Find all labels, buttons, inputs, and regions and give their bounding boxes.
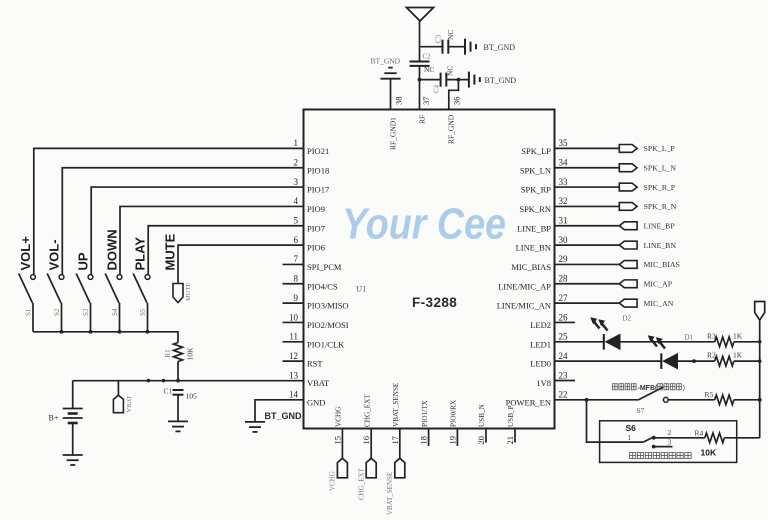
annotation box for S6 circuit xyxy=(600,421,737,463)
annotation slide switch power on xyxy=(630,453,636,459)
svg-text:VBAT: VBAT xyxy=(307,378,330,388)
pin 36 wire jog xyxy=(449,80,459,110)
pin 23 1V8 stub xyxy=(555,379,576,381)
svg-text:10K: 10K xyxy=(186,347,195,361)
wire POWER_EN down to S6 box xyxy=(587,400,644,442)
svg-text:13: 13 xyxy=(289,370,299,380)
svg-text:MIC_BIAS: MIC_BIAS xyxy=(644,260,680,269)
svg-text:14: 14 xyxy=(289,390,299,400)
capacitor C4 NC xyxy=(440,73,442,87)
svg-text:MIC_BIAS: MIC_BIAS xyxy=(511,262,551,272)
switch S3 UP xyxy=(88,275,93,280)
pin 8 PIO4/CS stub + number xyxy=(283,283,304,285)
svg-text:VBAT_SENSE: VBAT_SENSE xyxy=(386,472,394,515)
pin 12 RST stub + number xyxy=(283,360,304,362)
svg-text:23: 23 xyxy=(559,370,569,380)
svg-text:BT_GND: BT_GND xyxy=(484,43,516,52)
svg-text:22: 22 xyxy=(559,390,568,400)
battery B+ xyxy=(72,381,74,409)
svg-text:B+: B+ xyxy=(49,414,59,423)
pin 20 USB_N xyxy=(485,429,487,443)
svg-text:SPK_LN: SPK_LN xyxy=(520,165,551,175)
pin 18 PIO1/TX xyxy=(428,429,430,447)
svg-text:RF_GND1: RF_GND1 xyxy=(389,117,398,150)
svg-text:PIO9: PIO9 xyxy=(307,204,325,214)
pin 4 wire to S4 xyxy=(120,206,304,274)
svg-text:LINE_BN: LINE_BN xyxy=(516,243,551,253)
svg-text:4: 4 xyxy=(294,196,299,206)
svg-text:PIO21: PIO21 xyxy=(307,146,329,156)
svg-text:VBAT_SENSE: VBAT_SENSE xyxy=(392,382,400,427)
port flag CHG_EXT xyxy=(366,458,376,478)
svg-text:6: 6 xyxy=(294,235,299,245)
svg-text:CHG_EXT: CHG_EXT xyxy=(358,467,366,500)
svg-text:MUTE: MUTE xyxy=(185,283,192,301)
svg-text:NC: NC xyxy=(446,30,455,40)
pin 26 LED2 stub xyxy=(555,321,576,323)
VBAT flag connector xyxy=(117,381,119,396)
pin 2 wire to S2 xyxy=(62,168,303,275)
svg-text:S7: S7 xyxy=(637,406,645,415)
svg-text:USB_P: USB_P xyxy=(507,405,515,427)
pin 17 VBAT_SENSE xyxy=(399,429,401,459)
pin 10 PIO2/MOSI stub + number xyxy=(283,321,304,323)
svg-text:PIO1/TX: PIO1/TX xyxy=(421,399,429,427)
svg-text:BT_GND: BT_GND xyxy=(485,76,517,85)
svg-text:37: 37 xyxy=(421,97,431,106)
svg-text:SPK_R_P: SPK_R_P xyxy=(644,183,676,192)
svg-text:DOWN: DOWN xyxy=(104,229,119,270)
svg-text:PIO2/MOSI: PIO2/MOSI xyxy=(307,320,349,330)
svg-text:VOL+: VOL+ xyxy=(18,236,33,271)
svg-text:PIO6: PIO6 xyxy=(307,243,325,253)
svg-text:NC: NC xyxy=(424,65,434,74)
svg-text:-MFB(: -MFB( xyxy=(638,385,658,392)
svg-text:9: 9 xyxy=(294,293,299,303)
svg-text:R3: R3 xyxy=(707,331,716,340)
switch S6 xyxy=(643,436,655,442)
port flag SPK_L_N xyxy=(619,164,637,172)
svg-text:8: 8 xyxy=(294,274,299,284)
port flag VBAT_SENSE xyxy=(395,458,405,478)
wire pin 28 to port xyxy=(555,283,620,285)
svg-text:VOL-: VOL- xyxy=(46,239,61,270)
port flag SPK_R_P xyxy=(619,183,637,191)
svg-text:1K: 1K xyxy=(733,351,743,360)
svg-text:PIO17: PIO17 xyxy=(307,185,329,195)
svg-text:SPI_PCM: SPI_PCM xyxy=(307,262,342,272)
port flag MIC_AP xyxy=(619,280,637,288)
svg-text:UP: UP xyxy=(75,252,90,270)
svg-text:LINE/MIC_AP: LINE/MIC_AP xyxy=(498,281,551,291)
switch S1 VOL+ xyxy=(31,275,36,280)
svg-text:S6: S6 xyxy=(626,423,637,433)
svg-text:1V8: 1V8 xyxy=(536,378,551,388)
svg-text:U1: U1 xyxy=(356,284,366,294)
svg-text:R1: R1 xyxy=(164,349,172,358)
R1 bottom wire xyxy=(177,362,179,381)
ground below C1 xyxy=(168,420,188,422)
VBAT node junction dots xyxy=(147,379,151,383)
pin 11 PIO1/CLK stub + number xyxy=(283,341,304,343)
LED D1 on LED0 line xyxy=(555,360,662,362)
svg-text:20: 20 xyxy=(476,436,486,445)
svg-text:D1: D1 xyxy=(685,334,694,342)
switch S7 xyxy=(638,387,663,400)
svg-text:BT_GND: BT_GND xyxy=(371,57,401,66)
svg-text:GND: GND xyxy=(307,397,325,407)
svg-text:SPK_L_P: SPK_L_P xyxy=(644,144,676,153)
svg-text:S2: S2 xyxy=(53,308,61,316)
junction after C4 xyxy=(457,78,461,82)
svg-text:34: 34 xyxy=(559,158,569,168)
svg-text:PIO3/MISO: PIO3/MISO xyxy=(307,301,349,311)
svg-text:S5: S5 xyxy=(139,308,147,316)
wire pin 29 to port xyxy=(555,263,620,265)
pin 1 wire to S1 xyxy=(34,148,304,274)
svg-text:RST: RST xyxy=(307,359,323,369)
svg-text:PLAY: PLAY xyxy=(132,237,147,271)
svg-text:MUTE: MUTE xyxy=(163,233,178,270)
wire pin 30 to port xyxy=(555,244,620,246)
svg-text:C3: C3 xyxy=(435,34,443,43)
svg-text:R2: R2 xyxy=(707,351,716,360)
rail junctions xyxy=(758,340,762,344)
svg-text:R4: R4 xyxy=(695,429,704,438)
pin 3 wire to S3 xyxy=(91,187,303,275)
svg-text:19: 19 xyxy=(447,436,457,445)
junction xyxy=(118,330,122,334)
D2 emission arrows xyxy=(593,321,599,329)
pin 9 PIO3/MISO stub + number xyxy=(283,302,304,304)
switch S5 PLAY xyxy=(145,275,150,280)
svg-text:R5: R5 xyxy=(705,390,714,399)
port flag MIC_AN xyxy=(619,299,637,307)
svg-text:C1: C1 xyxy=(164,387,173,396)
pin 21 USB_P xyxy=(514,429,516,443)
svg-text:LINE_BN: LINE_BN xyxy=(644,241,677,250)
junction xyxy=(60,330,64,334)
svg-text:LED1: LED1 xyxy=(530,339,551,349)
switch S4 DOWN xyxy=(117,275,122,280)
svg-text:12: 12 xyxy=(289,351,298,361)
svg-text:11: 11 xyxy=(289,332,298,342)
svg-text:LED2: LED2 xyxy=(530,320,551,330)
port flag MIC_BIAS xyxy=(619,261,637,269)
svg-text:10: 10 xyxy=(289,312,299,322)
S6 throw 3 stub xyxy=(652,445,656,449)
svg-text:PIO0/RX: PIO0/RX xyxy=(450,399,458,427)
svg-text:17: 17 xyxy=(390,436,400,445)
pin 19 PIO0/RX xyxy=(456,429,458,447)
power port BT_GND lower xyxy=(468,72,470,88)
ground BT_GND at pin 14 xyxy=(245,421,265,423)
svg-text:CHG_EXT: CHG_EXT xyxy=(363,394,371,427)
pin 5 wire to S5 xyxy=(148,226,303,275)
svg-text:30: 30 xyxy=(559,235,569,245)
svg-text:F-3288: F-3288 xyxy=(412,295,457,310)
svg-text:35: 35 xyxy=(559,138,569,148)
resistor R3 1K xyxy=(715,337,734,347)
svg-text:LINE/MIC_AN: LINE/MIC_AN xyxy=(497,301,551,311)
wire pin 27 to port xyxy=(555,302,620,304)
svg-text:28: 28 xyxy=(559,274,569,284)
port flag SPK_L_P xyxy=(619,145,637,153)
svg-text:PIO4/CS: PIO4/CS xyxy=(307,281,338,291)
wire pin 33 to port xyxy=(555,186,620,188)
wire S7 to R5 xyxy=(668,399,715,401)
svg-text:MIC_AN: MIC_AN xyxy=(644,299,674,308)
svg-text:VCHG: VCHG xyxy=(335,407,343,427)
right rail flag connector xyxy=(755,302,765,321)
svg-text:LINE_BP: LINE_BP xyxy=(644,222,676,231)
port flag SPK_R_N xyxy=(619,203,637,211)
svg-text:1: 1 xyxy=(294,138,299,148)
svg-text:BT_GND: BT_GND xyxy=(265,411,303,421)
branch wire to C4 xyxy=(420,79,441,81)
LED D2 on LED1 line xyxy=(555,341,604,343)
junction on POWER_EN xyxy=(585,398,589,402)
svg-text:SPK_R_N: SPK_R_N xyxy=(644,202,677,211)
svg-text:1K: 1K xyxy=(733,331,743,340)
junction on antenna line xyxy=(418,78,422,82)
svg-text:): ) xyxy=(683,385,685,392)
svg-text:36: 36 xyxy=(452,97,462,106)
svg-text:5: 5 xyxy=(294,216,299,226)
pin 13 VBAT wire xyxy=(73,380,304,382)
wire pin 31 to port xyxy=(555,225,620,227)
junction on LED0 line xyxy=(692,359,696,363)
pin 6 wire to MUTE flag xyxy=(178,245,304,283)
svg-text:SPK_LP: SPK_LP xyxy=(521,146,551,156)
svg-text:27: 27 xyxy=(559,293,569,303)
svg-text:2: 2 xyxy=(294,158,299,168)
port flag VCHG xyxy=(337,458,347,478)
capacitor C3 NC xyxy=(442,40,444,54)
resistor R1 xyxy=(174,343,183,362)
svg-text:Your Cee: Your Cee xyxy=(342,200,506,249)
junction xyxy=(146,330,150,334)
svg-text:26: 26 xyxy=(559,312,569,322)
svg-text:105: 105 xyxy=(186,392,198,401)
svg-text:LINE_BP: LINE_BP xyxy=(517,223,551,233)
svg-text:LED0: LED0 xyxy=(530,359,551,369)
svg-text:32: 32 xyxy=(559,196,568,206)
capacitor C1 105 xyxy=(173,389,184,391)
pin 7 SPI_PCM stub + number xyxy=(283,263,304,265)
svg-text:VCHG: VCHG xyxy=(329,471,337,491)
svg-text:18: 18 xyxy=(419,436,429,445)
antenna wire / pin 37 wire xyxy=(419,21,421,62)
IC U1 F-3288 body xyxy=(304,110,555,429)
svg-text:SPK_RN: SPK_RN xyxy=(519,204,551,214)
svg-text:S1: S1 xyxy=(25,308,33,316)
svg-text:S3: S3 xyxy=(82,308,90,316)
svg-text:SPK_L_N: SPK_L_N xyxy=(644,164,677,173)
svg-text:21: 21 xyxy=(505,436,515,445)
svg-text:RF_GND: RF_GND xyxy=(447,114,456,144)
svg-text:7: 7 xyxy=(294,254,299,264)
power port BT_GND upper xyxy=(464,39,466,55)
right rail wire xyxy=(759,320,761,438)
switch S2 VOL- xyxy=(59,275,64,280)
svg-text:25: 25 xyxy=(559,332,569,342)
junction xyxy=(89,330,93,334)
port flag LINE_BP xyxy=(619,222,637,230)
svg-text:S4: S4 xyxy=(111,308,119,316)
capacitor C2 NC in series xyxy=(410,61,430,63)
svg-text:3: 3 xyxy=(294,177,299,187)
svg-text:PIO1/CLK: PIO1/CLK xyxy=(307,339,345,349)
svg-text:C4: C4 xyxy=(433,84,441,93)
annotation key-press power on xyxy=(613,384,618,390)
ground below battery xyxy=(63,454,83,456)
svg-text:38: 38 xyxy=(394,97,404,106)
svg-text:33: 33 xyxy=(559,177,569,187)
switch common rail xyxy=(33,332,178,343)
POWER_EN wire xyxy=(555,399,639,401)
pin 38 wire xyxy=(390,79,392,110)
svg-text:C2: C2 xyxy=(423,53,432,61)
svg-text:RF: RF xyxy=(418,115,427,124)
svg-text:PIO18: PIO18 xyxy=(307,165,329,175)
D1 emission arrows xyxy=(651,339,657,347)
resistor R4 10K xyxy=(705,433,725,443)
svg-text:10K: 10K xyxy=(701,448,717,458)
svg-text:29: 29 xyxy=(559,254,569,264)
svg-text:2: 2 xyxy=(668,428,672,437)
wire S6 to R4 xyxy=(654,437,705,439)
wire pin 32 to port xyxy=(555,205,620,207)
pin 16 CHG_EXT xyxy=(370,429,372,459)
branch wire to C3 xyxy=(420,46,443,48)
MUTE flag connector xyxy=(173,284,183,303)
svg-text:16: 16 xyxy=(361,436,371,445)
wire pin 35 to port xyxy=(555,147,620,149)
svg-text:31: 31 xyxy=(559,216,568,226)
svg-text:PIO7: PIO7 xyxy=(307,223,325,233)
svg-text:1: 1 xyxy=(628,433,632,442)
svg-text:MIC_AP: MIC_AP xyxy=(644,280,673,289)
port flag LINE_BN xyxy=(619,241,637,249)
svg-text:NC: NC xyxy=(446,66,455,76)
resistor R2 1K xyxy=(715,356,734,366)
pin 15 VCHG xyxy=(341,429,343,459)
svg-text:USB_N: USB_N xyxy=(478,403,486,427)
svg-text:D2: D2 xyxy=(623,315,632,323)
wire pin 34 to port xyxy=(555,167,620,169)
svg-text:SPK_RP: SPK_RP xyxy=(521,185,552,195)
svg-text:24: 24 xyxy=(559,351,569,361)
resistor R5 xyxy=(715,395,734,405)
svg-text:VBAT: VBAT xyxy=(126,395,133,412)
pin 14 GND wire to BT_GND ground xyxy=(255,400,304,422)
inverted ground BT_GND above pin 38 xyxy=(380,78,400,80)
antenna xyxy=(407,8,434,22)
svg-text:15: 15 xyxy=(332,436,342,445)
